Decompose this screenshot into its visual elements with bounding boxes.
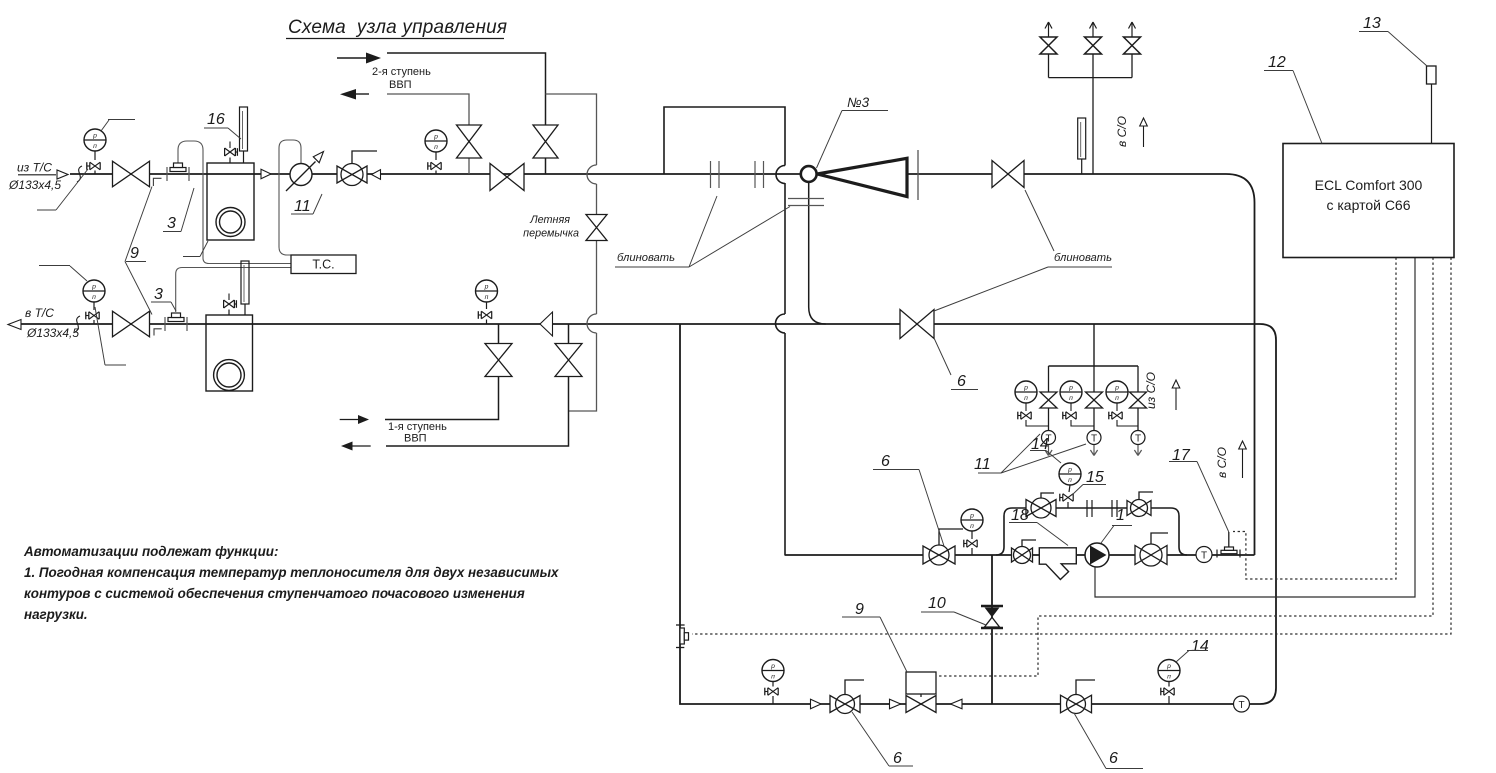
thermometer on HX2 [241,261,249,315]
flange pair 1 (блиновать) [711,161,720,188]
gauge 14 bottom [1158,660,1180,687]
capillary: bottom sensor 3 to T.C. [176,268,291,313]
ECL Comfort 300 controller box [1283,144,1454,258]
pipe hop: jumper over return [587,314,597,333]
svg-text:перемычка: перемычка [523,228,579,240]
label 9 [125,187,152,315]
arrow on bottom line 2 [890,699,901,709]
valve: central gate valve on supply [490,164,524,191]
svg-text:в С/О: в С/О [1215,447,1229,478]
outdoor sensor 13 [1427,66,1437,144]
svg-text:п: п [92,294,96,301]
svg-text:16: 16 [207,111,225,128]
leader: return gauge [39,266,87,282]
svg-text:Т: Т [1238,700,1244,711]
gauge on return at 1st stage [476,280,498,309]
vent valve on HX1 [225,142,238,164]
manifold gauge 2 [1060,381,1094,426]
valve 6 bottom right [1061,680,1096,714]
wire: vent drop to supply [1092,78,1094,174]
svg-text:Летняя: Летняя [529,214,570,226]
T sensor bottom right [1234,696,1250,712]
svg-text:п: п [1068,477,1072,484]
notes paragraph [23,544,559,622]
svg-text:п: п [970,523,974,530]
svg-text:3: 3 [154,286,163,303]
valve: summer jumper valve [586,215,607,241]
arrow: в Т/С outlet [8,320,21,330]
sensor 3 (top) pocket [167,163,189,181]
svg-text:2-я ступень: 2-я ступень [372,66,431,78]
strainer 18 (dirt trap) [1039,548,1076,580]
gauge on bottom line [762,660,784,687]
needle valve under gauge [428,162,441,174]
svg-text:6: 6 [1109,750,1118,767]
ball valve on bypass [1026,493,1056,518]
regulator 11 (self-acting) [286,152,324,192]
needle under gauge 14 [1161,688,1174,704]
svg-text:в Т/С: в Т/С [25,306,54,320]
svg-text:Ø133х4,5: Ø133х4,5 [8,178,61,192]
label №3 [817,95,889,168]
svg-text:15: 15 [1086,469,1104,486]
svg-text:6: 6 [893,750,902,767]
label: блиновать (left) [615,196,790,267]
label: Летняя перемычка [523,214,579,240]
svg-text:п: п [1024,395,1028,402]
wire: summer jumper (перемычка) [546,94,597,411]
sensor 17 pocket [1217,532,1240,558]
svg-text:11: 11 [294,198,311,215]
label: 2-я ступень ВВП [372,66,431,91]
gauge before pump [961,509,983,539]
capillary: regulator 11 to T.C. [279,140,301,255]
svg-text:1: 1 [1116,507,1125,524]
control line (dashed): ECL to sensor on riser x=680 [692,258,1451,635]
svg-text:10: 10 [928,595,946,612]
svg-text:р: р [1023,385,1028,392]
label 11 (regulator) [291,194,322,215]
label 12 [1264,54,1322,144]
svg-text:п: п [434,144,438,151]
control line (dashed): ECL to sensor 17 [1233,258,1396,580]
svg-text:12: 12 [1268,54,1286,71]
gauge on supply near VVP valves [425,130,447,160]
arrow: 1st stage supply (filled) [340,415,369,424]
wire: drop to 1st stage supply [385,324,499,420]
svg-text:п: п [1167,674,1171,681]
title [286,17,507,39]
valve on supply right (блиновать) [992,161,1024,188]
sensor 3 (bottom) pocket [165,313,187,331]
svg-text:9: 9 [130,245,139,262]
manifold valve 1 [1040,392,1057,408]
svg-text:п: п [1115,395,1119,402]
needle under gauge [964,540,977,555]
svg-text:3: 3 [167,215,176,232]
svg-text:6: 6 [957,373,966,390]
svg-text:Т: Т [1201,551,1207,562]
label 3 (top) [163,188,194,232]
arrow: 1st stage return (filled) [341,442,371,451]
pipe break mark (return) [75,316,80,332]
svg-text:с картой С66: с картой С66 [1326,197,1410,213]
label: из С/О [1144,372,1180,410]
svg-text:Т: Т [1135,434,1141,445]
wire: return main line в Т/С [21,324,1276,704]
step mark at supply valve [153,178,161,186]
svg-text:Схема узла управления: Схема узла управления [288,17,507,38]
pipe break mark (supply) [77,166,82,182]
svg-text:1-я ступень: 1-я ступень [388,421,447,433]
wire: drop to 1st stage return [386,324,569,446]
svg-text:Ø133х4,5: Ø133х4,5 [26,326,79,340]
leader: return needle valve [95,307,126,365]
svg-text:ECL Comfort 300: ECL Comfort 300 [1315,177,1423,193]
manifold T sensor 2 [1087,431,1101,456]
svg-text:р: р [92,133,97,140]
ball valve after pump [1135,533,1168,566]
svg-text:п: п [1069,395,1073,402]
pipe hop: x=785 over return [776,314,786,333]
valve 6 bottom left [830,680,864,714]
svg-text:р: р [969,513,974,520]
wire: supply main line из Т/С [70,174,1255,555]
T.C. box [291,255,356,274]
svg-text:р: р [433,134,438,141]
arrow on bottom line 3 (left) [951,699,963,709]
heat exchanger (top) [207,163,254,240]
svg-text:ВВП: ВВП [389,79,412,91]
valve: 2nd stage return riser valve [457,125,482,158]
label 6 (suction valve) [873,453,944,546]
pipe hop: x=785 over supply [776,166,785,184]
label 6 (bottom left) [852,712,913,767]
wire: manifold drop 2 [1093,366,1095,431]
label: 1-я ступень ВВП [388,421,447,445]
svg-text:р: р [484,284,489,291]
svg-text:в С/О: в С/О [1115,116,1129,147]
valve 6 on pump suction [923,529,963,565]
svg-text:6: 6 [881,453,890,470]
flange pair on bypass 2 [1112,500,1117,517]
wire: riser from upper box to pump line (x=785) [784,183,786,555]
svg-text:1. Погодная компенсация темпер: 1. Погодная компенсация температур тепло… [24,565,559,580]
label 17 [1169,447,1229,532]
svg-text:п: п [93,143,97,150]
svg-text:из С/О: из С/О [1144,372,1158,409]
needle under gauge [765,688,778,704]
svg-text:Т.С.: Т.С. [312,258,334,272]
svg-text:контуров с системой обеспечени: контуров с системой обеспечения ступенча… [24,586,525,601]
manifold T sensor 3 [1131,431,1145,456]
svg-text:9: 9 [855,601,864,618]
label 1 (pump) [1101,507,1132,543]
manifold valve 2 [1086,392,1103,408]
svg-text:13: 13 [1363,15,1381,32]
needle under gauge [478,311,491,324]
control valve 9 with actuator [906,672,936,713]
svg-text:р: р [1067,467,1072,474]
svg-text:р: р [1068,385,1073,392]
capillary: top sensor 3 to T.C. [178,141,291,264]
manifold T sensor 1 [1042,431,1056,456]
check valve 10 [981,606,1003,628]
arrow: 2nd stage return (filled) [340,89,369,100]
label 6 (bottom right) [1074,713,1143,769]
vent valve 1 with arrow (top right) [1040,22,1057,78]
wire: pump suction line [785,554,1255,556]
svg-text:из Т/С: из Т/С [17,161,52,175]
manifold gauge 1 [1015,381,1049,426]
gauge: return manometer [83,280,105,310]
flange tick right of elevator [917,150,919,200]
T sensor after pump [1196,547,1212,563]
valve: return gate valve (pos 9) [113,311,150,337]
label 15 [1072,469,1106,495]
svg-text:Автоматизации подлежат функции: Автоматизации подлежат функции: [23,544,278,559]
label: из Т/С [8,161,61,193]
label 18 [1009,507,1068,546]
upper box (accumulator) [664,107,785,174]
svg-text:р: р [91,284,96,291]
label 13 [1359,15,1427,66]
thermometer on supply right [1078,118,1086,174]
label 10 [921,595,986,625]
svg-text:14: 14 [1191,638,1209,655]
label 3 (bottom) [151,286,176,311]
label: блиновать (right) [934,190,1112,311]
valve: 1st stage supply riser valve [485,344,512,377]
svg-text:11: 11 [974,456,991,473]
wire: bottom return line [680,324,1260,704]
arrow: из Т/С inlet [18,170,68,179]
label: в С/О (right) [1215,441,1246,478]
needle valve under return gauge [86,312,99,324]
arrow on supply after ball valve [372,170,381,180]
manifold valve 3 [1130,392,1147,408]
wire: manifold feed from return pipe [1093,324,1095,366]
label 9 (bottom) [842,601,907,672]
thermometer 16 on HX1 [240,107,248,163]
vent valve 2 with arrow (top right) [1085,22,1102,78]
sensor pocket on riser x=680 [676,625,689,648]
arrow on bottom line 1 [811,699,822,709]
leader: supply needle valve [37,169,88,210]
svg-text:р: р [770,663,775,670]
flange pair on bypass 1 [1087,500,1092,517]
arrow on supply before regulator [261,169,271,179]
svg-text:п: п [485,294,489,301]
needle valve under supply gauge [87,162,100,174]
label: в Т/С [25,306,79,340]
wire: vent header [1049,77,1133,79]
flange pair 2 (блиновать) [755,161,764,188]
svg-text:ВВП: ВВП [404,433,427,445]
wire: check valve branch x=992 [991,555,993,704]
svg-text:п: п [771,674,775,681]
svg-text:блиновать: блиновать [1054,252,1112,264]
control line (dashed): ECL to pump [1095,258,1415,598]
vent valve on HX2 [224,294,237,316]
svg-text:№3: №3 [847,95,870,110]
wire: pump bypass loop [996,508,1187,555]
label 16 [204,111,241,139]
vent valve 3 with arrow (top right) [1124,22,1141,78]
label 14 (bottom) [1176,638,1209,662]
ball valve before strainer [1012,540,1037,564]
wire: 2nd stage supply header [387,53,546,174]
label 6 (return valve) [934,338,978,390]
gauge 14/15 on bypass [1059,463,1081,492]
wire: manifold drop 1 [1048,366,1050,431]
label 14 (manifold gauge) [1030,436,1061,463]
svg-text:Т: Т [1091,434,1097,445]
wire: manifold header [1049,365,1139,367]
needle valve 15 [1060,494,1073,508]
label 11 (T sensors) [974,434,1086,473]
svg-text:нагрузки.: нагрузки. [24,607,88,622]
step mark at return valve [154,329,162,336]
wire: elevator nozzle drop to return [809,183,826,325]
pump 1 [1085,543,1109,567]
label: в С/О (top) [1115,116,1147,147]
ball valve with actuator (supply) [337,151,377,186]
elevator cone №3 [817,158,907,196]
elevator nozzle circle №3 [801,166,817,182]
svg-text:18: 18 [1011,507,1029,524]
svg-text:р: р [1114,385,1119,392]
valve: 1st stage return riser valve [555,344,582,377]
arrow on return before 1st stage [540,312,553,336]
valve: supply gate valve (pos 9) [113,161,150,187]
wire: 2nd stage return header (gray) [387,94,469,174]
blind flange bars below nozzle [788,199,824,206]
svg-text:блиновать: блиновать [617,252,675,264]
arrow: 2nd stage supply (filled) [337,53,381,64]
wire: manifold drop 3 [1137,366,1139,431]
gauge: supply manometer [84,129,106,160]
heat exchanger (bottom) [206,315,253,391]
manifold gauge 3 [1106,381,1138,426]
pipe hop: jumper over supply [587,165,597,184]
ball valve on bypass right [1127,492,1153,517]
valve: 2nd stage supply riser valve [533,125,558,158]
leader: supply gauge [101,120,135,132]
svg-text:р: р [1166,663,1171,670]
valve on return right (блиновать) [900,310,934,339]
leader: HX1 mark [183,241,208,257]
control line (dashed): ECL to valve 9 actuator [937,258,1434,677]
